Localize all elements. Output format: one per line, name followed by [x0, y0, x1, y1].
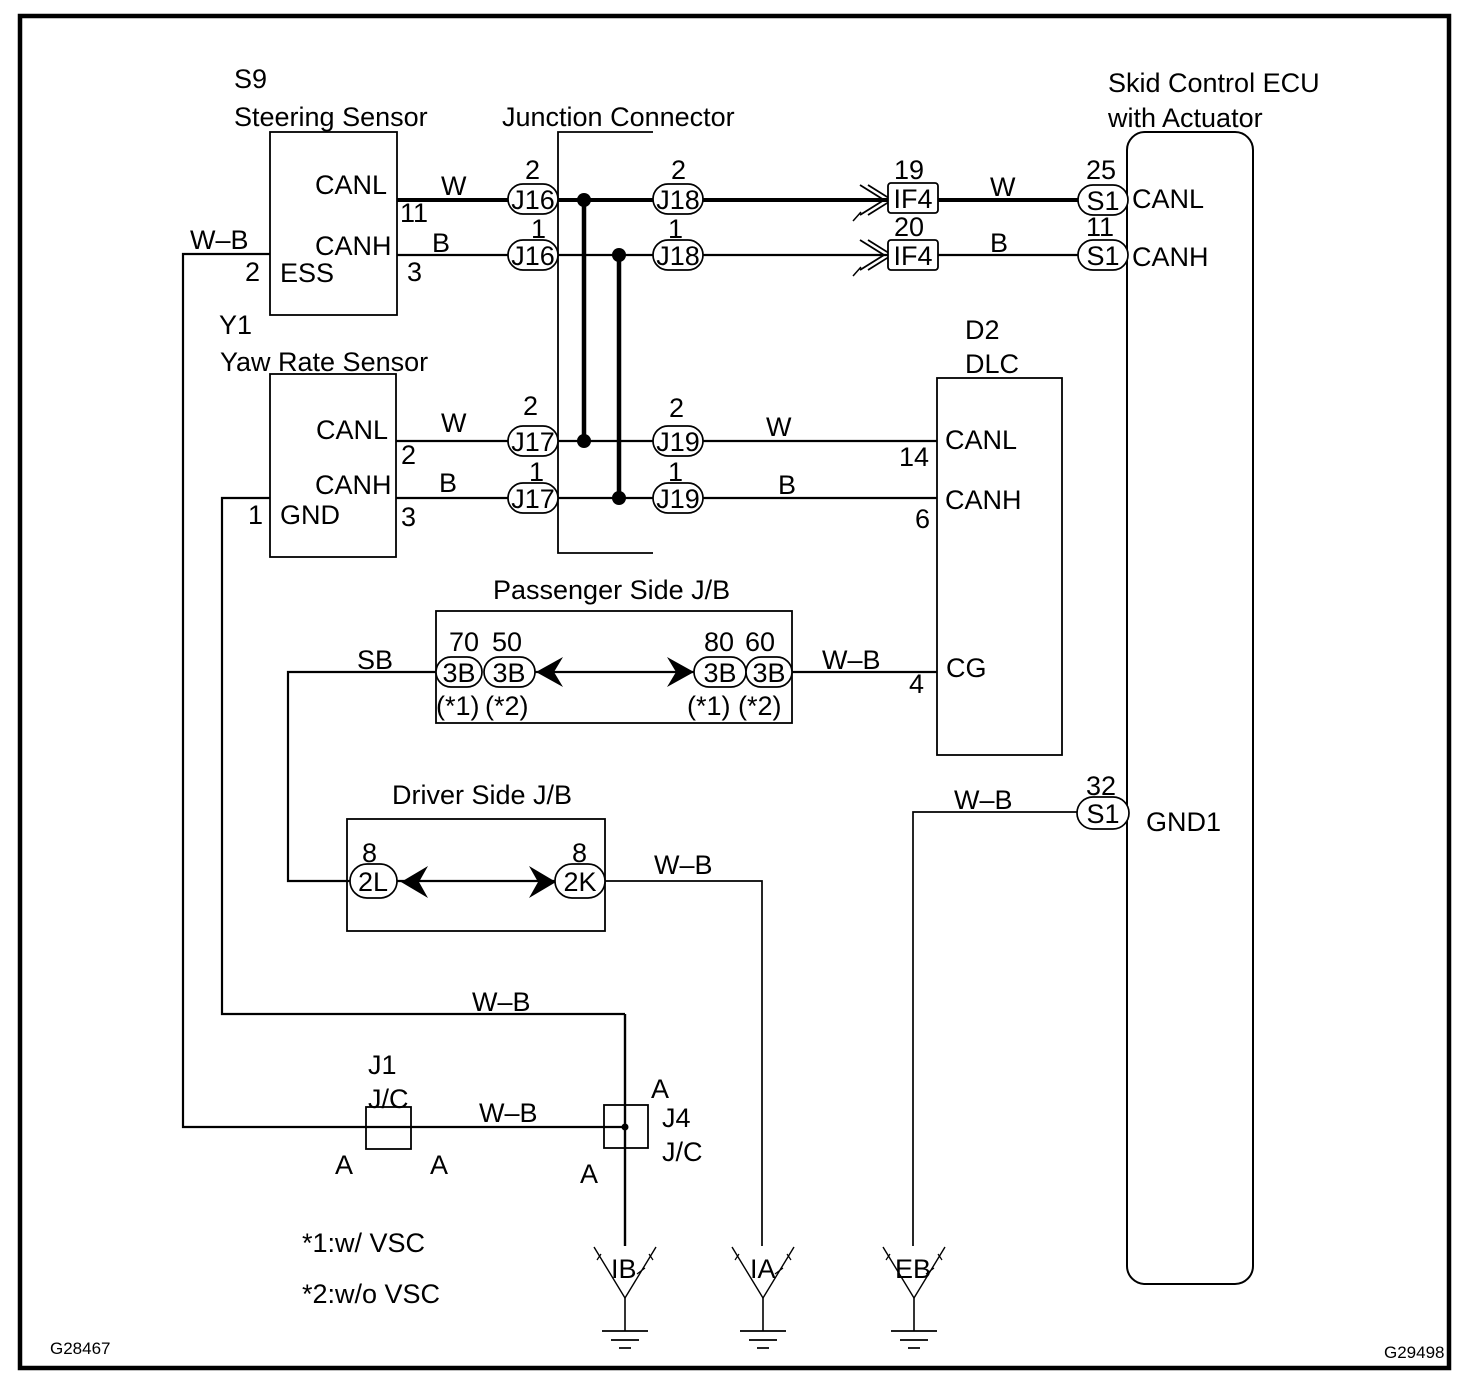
ground IA: [732, 1247, 794, 1348]
connector J18 pin1: [653, 214, 703, 271]
svg-text:W–B: W–B: [654, 850, 713, 880]
svg-text:2: 2: [523, 391, 538, 421]
svg-text:CG: CG: [946, 653, 987, 683]
connector J18 pin2: [653, 155, 703, 215]
connector 2L pin8: [350, 838, 397, 898]
connector IF4 pin20 with chevron: [853, 212, 938, 276]
svg-text:J16: J16: [511, 241, 555, 271]
svg-text:J16: J16: [511, 185, 555, 215]
wire CANL W bold: steering S9 pin11 to J16 to J18 to IF4 to S1 pin25: [397, 198, 1078, 202]
svg-text:ESS: ESS: [280, 258, 334, 288]
svg-text:CANH: CANH: [315, 470, 392, 500]
svg-text:Passenger Side J/B: Passenger Side J/B: [493, 575, 730, 605]
svg-text:J19: J19: [656, 427, 700, 457]
ground EB: [883, 1247, 945, 1348]
svg-text:CANL: CANL: [315, 170, 387, 200]
svg-text:W: W: [766, 412, 792, 442]
svg-text:W–B: W–B: [472, 987, 531, 1017]
wire W-B: passenger J/B 3B-60 to DLC CG pin4: [792, 671, 937, 673]
connector J16 pin2: [508, 155, 558, 215]
svg-text:1: 1: [668, 457, 683, 487]
svg-text:1: 1: [248, 500, 263, 530]
connector 2K pin8: [555, 838, 605, 898]
connector 3B pin50: [484, 627, 535, 721]
svg-text:1: 1: [529, 457, 544, 487]
svg-text:Driver Side J/B: Driver Side J/B: [392, 780, 572, 810]
svg-text:(*2): (*2): [485, 691, 529, 721]
svg-text:3: 3: [407, 257, 422, 287]
svg-text:2: 2: [245, 257, 260, 287]
svg-text:4: 4: [909, 669, 924, 699]
svg-text:2L: 2L: [358, 867, 388, 897]
svg-text:CANH: CANH: [945, 485, 1022, 515]
svg-text:11: 11: [1086, 212, 1114, 242]
svg-text:60: 60: [745, 627, 775, 657]
wire CANH B: yaw sensor pin3 to J17 to J19 to DLC pin6: [396, 497, 937, 499]
wire CANL W: yaw sensor pin2 to J17 to J19 to DLC pin14: [396, 440, 937, 442]
block Driver Side J/B box: [347, 819, 605, 931]
junction dot in J4: [622, 1124, 629, 1131]
connector J17 pin1: [508, 457, 558, 514]
svg-text:19: 19: [894, 155, 924, 185]
junction block J4 J/C: [580, 1074, 703, 1189]
svg-text:GND: GND: [280, 500, 340, 530]
svg-text:A: A: [580, 1159, 598, 1189]
arrowhead left in driver J/B: [401, 866, 428, 898]
wire CANH B: steering S9 pin3 to J16 to J18 to IF4 to S1 pin11: [397, 254, 1078, 256]
svg-text:IA: IA: [750, 1254, 776, 1284]
svg-text:A: A: [430, 1150, 448, 1180]
svg-text:SB: SB: [357, 645, 393, 675]
svg-text:J18: J18: [656, 185, 700, 215]
block Y1 Yaw Rate Sensor box: [270, 374, 396, 557]
block D2 DLC box: [937, 378, 1062, 755]
svg-text:W: W: [990, 172, 1016, 202]
wire W-B: driver J/B 2K right and down to ground IA: [605, 881, 762, 1246]
svg-text:J4: J4: [662, 1103, 691, 1133]
svg-text:S9: S9: [234, 64, 267, 94]
svg-text:(*1): (*1): [436, 691, 480, 721]
svg-text:EB: EB: [895, 1254, 931, 1284]
svg-text:S1: S1: [1086, 241, 1119, 271]
svg-text:Junction Connector: Junction Connector: [502, 102, 735, 132]
wire W-B vertical through J4 J/C down to ground IB: [624, 1014, 626, 1246]
connector J17 pin2: [508, 391, 558, 457]
svg-text:3B: 3B: [492, 658, 525, 688]
svg-text:with Actuator: with Actuator: [1107, 103, 1263, 133]
svg-text:Yaw Rate Sensor: Yaw Rate Sensor: [220, 347, 428, 377]
connector J19 pin1: [653, 457, 703, 514]
wire W-B: S1 pin32 GND1 left and down to ground EB: [913, 812, 1078, 1246]
svg-text:A: A: [335, 1150, 353, 1180]
wire W-B: steering pin2 left down to J1 J/C row to J4 J/C: [183, 254, 625, 1127]
svg-text:25: 25: [1086, 155, 1116, 185]
svg-text:B: B: [439, 468, 457, 498]
connector 3B pin80: [687, 627, 746, 721]
svg-text:W: W: [441, 408, 467, 438]
svg-text:50: 50: [492, 627, 522, 657]
wire SB: down from passenger J/B to driver J/B 2L: [288, 672, 436, 881]
svg-text:S1: S1: [1086, 799, 1119, 829]
connector J16 pin1: [508, 214, 558, 271]
svg-text:*1:w/ VSC: *1:w/ VSC: [302, 1228, 425, 1258]
svg-text:14: 14: [899, 442, 929, 472]
svg-text:IF4: IF4: [893, 241, 932, 271]
svg-text:1: 1: [668, 214, 683, 244]
svg-text:W–B: W–B: [822, 645, 881, 675]
svg-text:B: B: [778, 470, 796, 500]
svg-text:J1: J1: [368, 1050, 397, 1080]
svg-text:3: 3: [401, 502, 416, 532]
svg-text:CANL: CANL: [945, 425, 1017, 455]
svg-text:IB: IB: [611, 1254, 637, 1284]
svg-text:J/C: J/C: [662, 1137, 703, 1167]
svg-text:W: W: [441, 171, 467, 201]
arrowhead left in passenger J/B: [536, 657, 563, 687]
svg-text:A: A: [651, 1074, 669, 1104]
svg-text:8: 8: [362, 838, 377, 868]
svg-text:11: 11: [400, 198, 428, 228]
connector S1 pin25 CANL: [1078, 155, 1204, 216]
junction dot CANL top: [577, 193, 591, 207]
wire bus CANL inside junction connector: [582, 200, 587, 441]
svg-text:G28467: G28467: [50, 1339, 111, 1358]
svg-text:W–B: W–B: [190, 225, 249, 255]
svg-text:2K: 2K: [563, 867, 596, 897]
svg-text:32: 32: [1086, 771, 1116, 801]
svg-text:G29498: G29498: [1384, 1343, 1445, 1362]
svg-text:Y1: Y1: [219, 310, 252, 340]
svg-text:20: 20: [894, 212, 924, 242]
svg-text:J18: J18: [656, 241, 700, 271]
svg-text:CANL: CANL: [1132, 184, 1204, 214]
junction dot CANH top: [612, 248, 626, 262]
svg-text:(*1): (*1): [687, 691, 731, 721]
svg-text:J17: J17: [511, 427, 555, 457]
svg-text:Skid Control ECU: Skid Control ECU: [1108, 68, 1320, 98]
svg-text:*2:w/o VSC: *2:w/o VSC: [302, 1279, 440, 1309]
svg-text:8: 8: [572, 838, 587, 868]
junction dot CANL bottom: [577, 434, 591, 448]
wire inside driver J/B between 2L and 2K: [397, 880, 555, 882]
svg-text:Steering Sensor: Steering Sensor: [234, 102, 428, 132]
svg-text:3B: 3B: [442, 658, 475, 688]
svg-text:B: B: [432, 228, 450, 258]
svg-text:GND1: GND1: [1146, 807, 1221, 837]
svg-text:(*2): (*2): [738, 691, 782, 721]
svg-text:6: 6: [915, 504, 930, 534]
connector S1 pin32 GND1: [1077, 771, 1221, 837]
svg-text:W–B: W–B: [954, 785, 1013, 815]
connector S1 pin11 CANH: [1078, 212, 1209, 272]
arrowhead right in driver J/B: [529, 866, 556, 898]
connector J19 pin2: [653, 393, 703, 457]
block S9 Steering Sensor box: [270, 132, 397, 315]
block Skid Control ECU with Actuator: [1127, 132, 1253, 1284]
svg-text:W–B: W–B: [479, 1098, 538, 1128]
svg-text:CANL: CANL: [316, 415, 388, 445]
svg-text:J/C: J/C: [368, 1084, 409, 1114]
svg-text:J19: J19: [656, 484, 700, 514]
svg-text:3B: 3B: [752, 658, 785, 688]
svg-text:CANH: CANH: [315, 231, 392, 261]
arrowhead right in passenger J/B: [667, 657, 694, 687]
svg-text:1: 1: [531, 214, 546, 244]
connector IF4 pin19 with chevron: [853, 155, 938, 221]
wire W-B: yaw GND pin1 left down right to J4 vertical: [222, 498, 625, 1014]
svg-text:2: 2: [669, 393, 684, 423]
connector 3B pin70: [436, 627, 482, 721]
wire inside passenger J/B between 3B connectors: [535, 671, 694, 673]
svg-text:DLC: DLC: [965, 349, 1019, 379]
ground IB: [594, 1247, 656, 1348]
block Passenger Side J/B box: [436, 611, 792, 723]
wire bus CANH inside junction connector: [617, 255, 622, 498]
svg-text:70: 70: [449, 627, 479, 657]
svg-text:80: 80: [704, 627, 734, 657]
svg-text:2: 2: [671, 155, 686, 185]
svg-text:B: B: [990, 228, 1008, 258]
svg-text:IF4: IF4: [893, 184, 932, 214]
svg-text:2: 2: [525, 155, 540, 185]
connector 3B pin60: [738, 627, 792, 721]
svg-text:CANH: CANH: [1132, 242, 1209, 272]
junction block J1 J/C: [335, 1050, 448, 1180]
svg-text:D2: D2: [965, 315, 1000, 345]
svg-text:2: 2: [401, 440, 416, 470]
block Junction Connector (open right side): [558, 132, 653, 553]
junction dot CANH bottom: [612, 491, 626, 505]
svg-text:J17: J17: [511, 484, 555, 514]
svg-text:3B: 3B: [703, 658, 736, 688]
